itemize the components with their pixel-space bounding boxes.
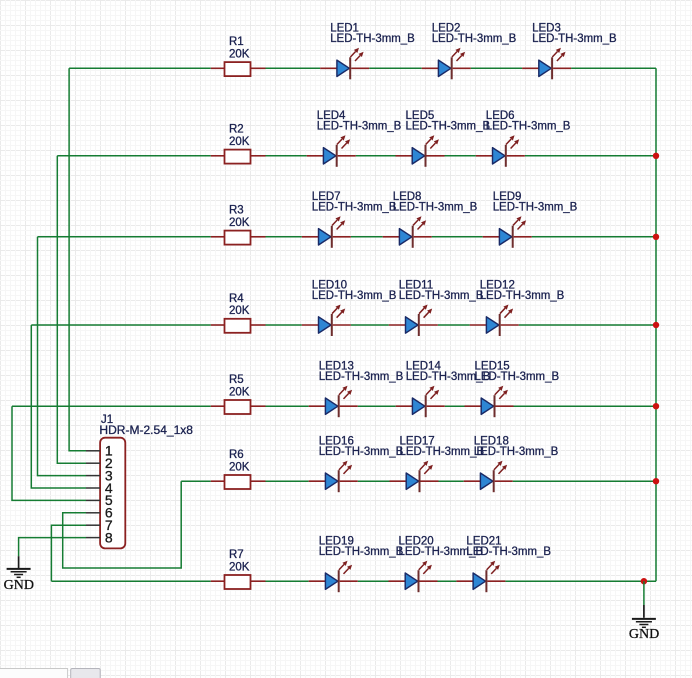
resistor R7 bbox=[211, 575, 266, 589]
label LED15 bbox=[475, 361, 510, 373]
wire net row5: J1 pin 5 to R5 feed bbox=[12, 406, 86, 500]
resistor R1 bbox=[211, 62, 266, 76]
value LED-TH-3mm_B (LED7) bbox=[312, 202, 397, 214]
wire row4: LED12 to right bus bbox=[519, 324, 656, 326]
value LED-TH-3mm_B (LED19) bbox=[319, 546, 404, 558]
LED LED18 (LED-TH-3mm_B) bbox=[464, 461, 513, 493]
svg-text:R5: R5 bbox=[229, 374, 244, 386]
value LED-TH-3mm_B (LED2) bbox=[432, 33, 517, 45]
LED LED11 (LED-TH-3mm_B) bbox=[389, 305, 438, 337]
svg-text:20K: 20K bbox=[229, 561, 250, 573]
label LED6 bbox=[486, 110, 515, 122]
LED LED7 (LED-TH-3mm_B) bbox=[302, 216, 351, 248]
wire net row4: J1 pin 4 to R4 feed bbox=[31, 325, 86, 488]
svg-text:LED-TH-3mm_B: LED-TH-3mm_B bbox=[480, 290, 565, 302]
junction row6 / right bus bbox=[653, 478, 659, 484]
value LED-TH-3mm_B (LED14) bbox=[406, 371, 491, 383]
svg-text:LED-TH-3mm_B: LED-TH-3mm_B bbox=[312, 202, 397, 214]
wire row5: LED15 to right bus bbox=[514, 405, 657, 407]
wire row4: LED11 to LED12 bbox=[438, 324, 470, 326]
pin 8 of J1 bbox=[86, 529, 113, 545]
svg-text:R2: R2 bbox=[229, 124, 244, 136]
label R7 bbox=[229, 549, 244, 561]
svg-text:R3: R3 bbox=[229, 205, 244, 217]
value 20K (R2) bbox=[229, 136, 250, 148]
wire row1: R1 to LED1 bbox=[266, 67, 321, 69]
wire row2: LED6 to right bus bbox=[525, 155, 656, 157]
resistor R2 bbox=[211, 150, 266, 164]
wire row6: LED17 to LED18 bbox=[439, 480, 464, 482]
label LED21 bbox=[466, 536, 501, 548]
wire row2: LED5 to LED6 bbox=[445, 155, 476, 157]
wire row7: feed to R7 bbox=[51, 580, 210, 582]
wire row1: LED3 to right bus bbox=[571, 67, 656, 69]
LED LED3 (LED-TH-3mm_B) bbox=[522, 48, 571, 80]
wire row1: LED2 to LED3 bbox=[471, 67, 522, 69]
junction row3 / right bus bbox=[653, 234, 659, 240]
wire net row7: J1 pin 7 to R7 feed bbox=[51, 525, 86, 581]
svg-text:LED-TH-3mm_B: LED-TH-3mm_B bbox=[432, 33, 517, 45]
wire row7: LED19 to LED20 bbox=[358, 580, 389, 582]
value LED-TH-3mm_B (LED11) bbox=[399, 290, 484, 302]
value 20K (R7) bbox=[229, 561, 250, 573]
wire row6: feed to R6 bbox=[181, 480, 211, 482]
label LED2 bbox=[432, 23, 461, 35]
junction row2 / right bus bbox=[653, 153, 659, 159]
label LED18 bbox=[474, 436, 509, 448]
value LED-TH-3mm_B (LED13) bbox=[319, 371, 404, 383]
LED LED16 (LED-TH-3mm_B) bbox=[309, 461, 358, 493]
value LED-TH-3mm_B (LED6) bbox=[486, 121, 571, 133]
LED LED8 (LED-TH-3mm_B) bbox=[383, 216, 432, 248]
value LED-TH-3mm_B (LED15) bbox=[475, 371, 560, 383]
wire row1: LED1 to LED2 bbox=[369, 67, 422, 69]
LED LED13 (LED-TH-3mm_B) bbox=[309, 386, 358, 418]
pin 2 of J1 bbox=[86, 455, 113, 471]
svg-text:GND: GND bbox=[629, 627, 659, 642]
pin 6 of J1 bbox=[86, 505, 113, 521]
label LED11 bbox=[399, 279, 433, 291]
svg-text:20K: 20K bbox=[229, 305, 250, 317]
wire row6: R6 to LED16 bbox=[266, 480, 309, 482]
wire row4: R4 to LED10 bbox=[266, 324, 302, 326]
svg-text:20K: 20K bbox=[229, 386, 250, 398]
LED LED4 (LED-TH-3mm_B) bbox=[307, 135, 356, 167]
label LED19 bbox=[319, 536, 354, 548]
value LED-TH-3mm_B (LED8) bbox=[393, 202, 478, 214]
LED LED14 (LED-TH-3mm_B) bbox=[396, 386, 445, 418]
value LED-TH-3mm_B (LED4) bbox=[317, 121, 402, 133]
svg-text:20K: 20K bbox=[229, 217, 250, 229]
wire row7: R7 to LED19 bbox=[266, 580, 309, 582]
LED LED21 (LED-TH-3mm_B) bbox=[456, 561, 505, 593]
label LED7 bbox=[312, 191, 341, 203]
wire row7: LED20 to LED21 bbox=[438, 580, 457, 582]
svg-text:LED-TH-3mm_B: LED-TH-3mm_B bbox=[399, 290, 484, 302]
value LED-TH-3mm_B (LED5) bbox=[406, 121, 491, 133]
value 20K (R6) bbox=[229, 461, 250, 473]
label R3 bbox=[229, 205, 244, 217]
wire right bus (cathode/GND net) bbox=[655, 68, 657, 581]
wire net row6: J1 pin 6 to R6 feed bbox=[63, 481, 182, 568]
svg-text:LED-TH-3mm_B: LED-TH-3mm_B bbox=[475, 371, 560, 383]
label LED9 bbox=[493, 191, 522, 203]
value HDR-M-2.54_1x8 bbox=[99, 425, 193, 437]
svg-text:R4: R4 bbox=[229, 293, 244, 305]
svg-text:LED-TH-3mm_B: LED-TH-3mm_B bbox=[319, 446, 404, 458]
label LED5 bbox=[406, 110, 435, 122]
svg-text:LED-TH-3mm_B: LED-TH-3mm_B bbox=[493, 202, 578, 214]
svg-text:R6: R6 bbox=[229, 449, 244, 461]
LED LED19 (LED-TH-3mm_B) bbox=[309, 561, 358, 593]
wire net row2: J1 pin 2 to R2 feed bbox=[57, 156, 86, 463]
svg-text:GND: GND bbox=[4, 578, 34, 593]
svg-text:LED-TH-3mm_B: LED-TH-3mm_B bbox=[393, 202, 478, 214]
wire row4: LED10 to LED11 bbox=[351, 324, 389, 326]
resistor R6 bbox=[211, 475, 266, 489]
value 20K (R5) bbox=[229, 386, 250, 398]
pin 7 of J1 bbox=[86, 517, 113, 533]
value LED-TH-3mm_B (LED16) bbox=[319, 446, 404, 458]
value 20K (R1) bbox=[229, 49, 250, 61]
svg-text:LED-TH-3mm_B: LED-TH-3mm_B bbox=[319, 371, 404, 383]
wire row3: R3 to LED7 bbox=[266, 236, 302, 238]
label R4 bbox=[229, 293, 244, 305]
wire row7: LED21 to right bus bbox=[505, 580, 656, 582]
svg-text:HDR-M-2.54_1x8: HDR-M-2.54_1x8 bbox=[99, 425, 193, 437]
svg-text:LED-TH-3mm_B: LED-TH-3mm_B bbox=[486, 121, 571, 133]
svg-text:LED-TH-3mm_B: LED-TH-3mm_B bbox=[312, 290, 397, 302]
LED LED9 (LED-TH-3mm_B) bbox=[483, 216, 532, 248]
wire row1: feed to R1 bbox=[69, 67, 211, 69]
LED LED17 (LED-TH-3mm_B) bbox=[390, 461, 439, 493]
wire GND stub (right bus to ground) bbox=[643, 581, 645, 605]
wire net row3: J1 pin 3 to R3 feed bbox=[38, 237, 87, 476]
LED LED20 (LED-TH-3mm_B) bbox=[389, 561, 438, 593]
wire net GND: J1 pin 8 to ground bbox=[19, 538, 86, 557]
svg-text:20K: 20K bbox=[229, 136, 250, 148]
svg-text:LED-TH-3mm_B: LED-TH-3mm_B bbox=[406, 121, 491, 133]
junction row4 / right bus bbox=[653, 322, 659, 328]
value LED-TH-3mm_B (LED9) bbox=[493, 202, 578, 214]
value 20K (R4) bbox=[229, 305, 250, 317]
resistor R4 bbox=[211, 319, 266, 333]
label LED13 bbox=[319, 361, 354, 373]
wire row5: LED14 to LED15 bbox=[445, 405, 465, 407]
resistor R3 bbox=[211, 231, 266, 245]
wire row2: feed to R2 bbox=[57, 155, 211, 157]
label LED12 bbox=[480, 279, 515, 291]
ground GND (left, J1 pin 8) bbox=[4, 556, 34, 593]
connector J1 (HDR-M-2.54_1x8) body bbox=[100, 438, 125, 549]
label R6 bbox=[229, 449, 244, 461]
value LED-TH-3mm_B (LED1) bbox=[330, 33, 415, 45]
pin 5 of J1 bbox=[86, 492, 113, 508]
label R2 bbox=[229, 124, 244, 136]
svg-text:LED-TH-3mm_B: LED-TH-3mm_B bbox=[532, 33, 617, 45]
wire row6: LED18 to right bus bbox=[513, 480, 656, 482]
LED LED5 (LED-TH-3mm_B) bbox=[396, 135, 445, 167]
wire row5: R5 to LED13 bbox=[266, 405, 309, 407]
wire row3: LED7 to LED8 bbox=[351, 236, 383, 238]
value LED-TH-3mm_B (LED20) bbox=[399, 546, 484, 558]
label LED17 bbox=[400, 436, 435, 448]
label LED1 bbox=[330, 23, 359, 35]
label LED8 bbox=[393, 191, 422, 203]
LED LED2 (LED-TH-3mm_B) bbox=[422, 48, 471, 80]
label LED10 bbox=[312, 279, 347, 291]
svg-text:20K: 20K bbox=[229, 461, 250, 473]
junction row5 / right bus bbox=[653, 403, 659, 409]
LED LED6 (LED-TH-3mm_B) bbox=[476, 135, 525, 167]
svg-text:R1: R1 bbox=[229, 36, 244, 48]
label LED3 bbox=[532, 23, 561, 35]
pin 3 of J1 bbox=[86, 467, 113, 483]
scrollbar corner bbox=[0, 669, 100, 678]
svg-text:LED-TH-3mm_B: LED-TH-3mm_B bbox=[466, 546, 551, 558]
wire net row1: J1 pin 1 to R1 feed bbox=[69, 68, 86, 451]
svg-text:LED-TH-3mm_B: LED-TH-3mm_B bbox=[400, 446, 485, 458]
wire row3: feed to R3 bbox=[38, 236, 211, 238]
svg-text:8: 8 bbox=[105, 529, 113, 545]
svg-text:LED-TH-3mm_B: LED-TH-3mm_B bbox=[319, 546, 404, 558]
label R1 bbox=[229, 36, 244, 48]
label R5 bbox=[229, 374, 244, 386]
svg-text:R7: R7 bbox=[229, 549, 244, 561]
LED LED1 (LED-TH-3mm_B) bbox=[320, 48, 369, 80]
label LED14 bbox=[406, 361, 442, 373]
wire row4: feed to R4 bbox=[31, 324, 211, 326]
wire row3: LED8 to LED9 bbox=[432, 236, 483, 238]
label LED20 bbox=[399, 536, 434, 548]
label LED4 bbox=[317, 110, 346, 122]
value LED-TH-3mm_B (LED18) bbox=[474, 446, 559, 458]
wire row5: feed to R5 bbox=[12, 405, 211, 407]
value LED-TH-3mm_B (LED10) bbox=[312, 290, 397, 302]
LED LED15 (LED-TH-3mm_B) bbox=[465, 386, 514, 418]
junction row7 / GND tap bbox=[641, 578, 647, 584]
wire row3: LED9 to right bus bbox=[532, 236, 656, 238]
wire row5: LED13 to LED14 bbox=[358, 405, 396, 407]
value LED-TH-3mm_B (LED12) bbox=[480, 290, 565, 302]
ground GND (right, LED cathode bus) bbox=[629, 605, 659, 642]
value 20K (R3) bbox=[229, 217, 250, 229]
label J1 bbox=[101, 414, 113, 426]
wire row2: LED4 to LED5 bbox=[356, 155, 396, 157]
value LED-TH-3mm_B (LED3) bbox=[532, 33, 617, 45]
LED LED10 (LED-TH-3mm_B) bbox=[302, 305, 351, 337]
value LED-TH-3mm_B (LED17) bbox=[400, 446, 485, 458]
wire row6: LED16 to LED17 bbox=[358, 480, 390, 482]
value LED-TH-3mm_B (LED21) bbox=[466, 546, 551, 558]
svg-text:LED-TH-3mm_B: LED-TH-3mm_B bbox=[330, 33, 415, 45]
LED LED12 (LED-TH-3mm_B) bbox=[470, 305, 519, 337]
wire row2: R2 to LED4 bbox=[266, 155, 307, 157]
pin 1 of J1 bbox=[86, 443, 113, 459]
pin 4 of J1 bbox=[86, 480, 113, 496]
svg-text:LED-TH-3mm_B: LED-TH-3mm_B bbox=[317, 121, 402, 133]
svg-text:20K: 20K bbox=[229, 49, 250, 61]
svg-text:LED-TH-3mm_B: LED-TH-3mm_B bbox=[474, 446, 559, 458]
resistor R5 bbox=[211, 400, 266, 414]
label LED16 bbox=[319, 436, 354, 448]
